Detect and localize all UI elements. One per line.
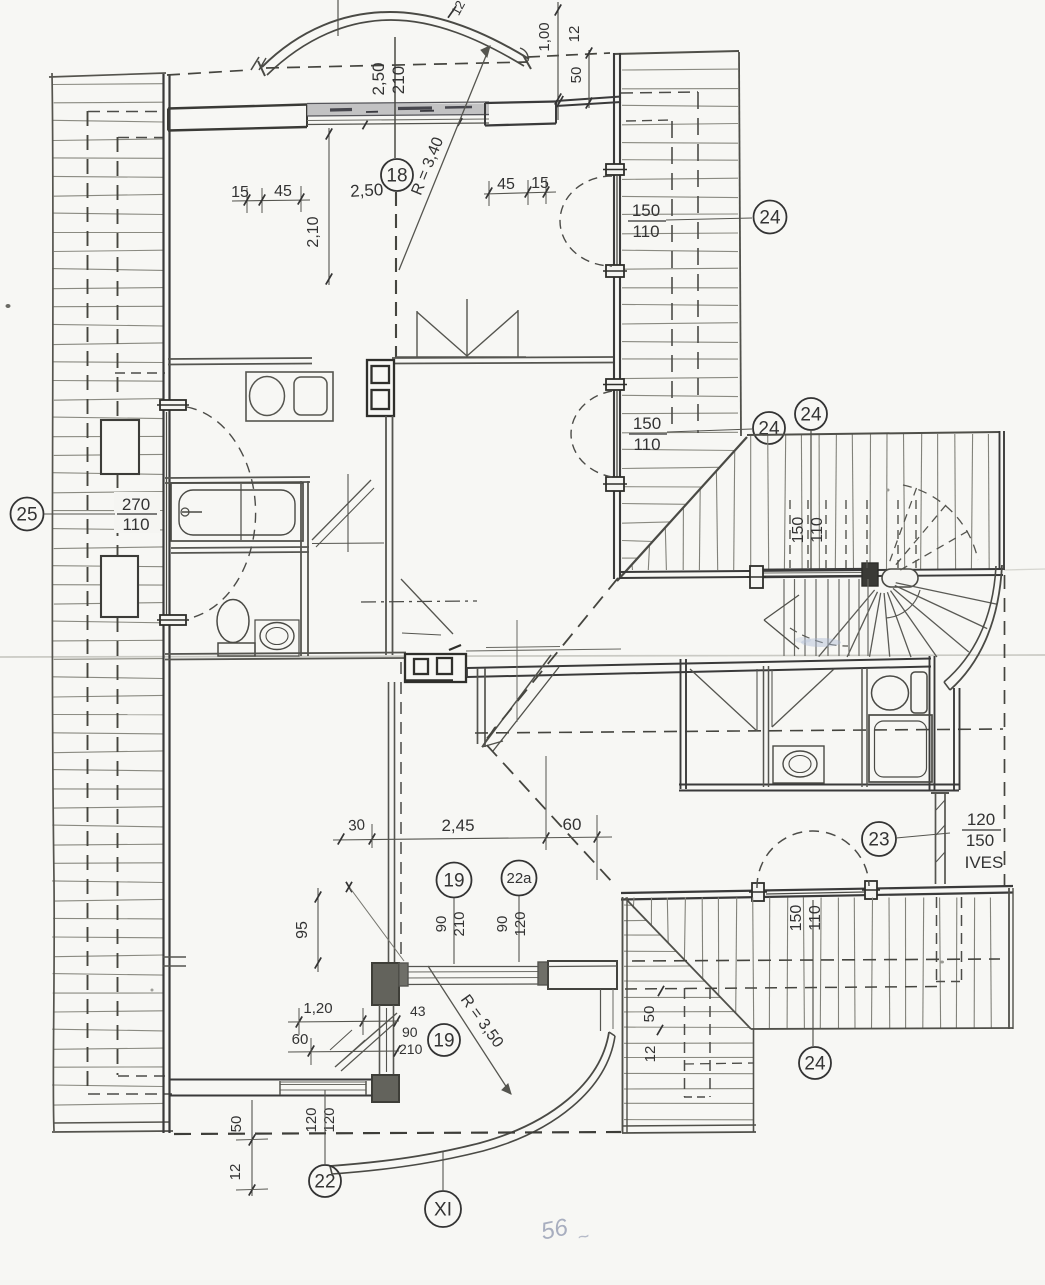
radius line R-3.40 xyxy=(399,46,490,270)
west wall window post lower xyxy=(157,615,189,625)
text 2,50 room width xyxy=(350,180,384,201)
leader 19 xyxy=(453,898,455,964)
svg-text:210: 210 xyxy=(389,66,408,94)
stair direction arrow xyxy=(764,595,799,649)
svg-text:210: 210 xyxy=(399,1041,423,1057)
stair outer curved wall xyxy=(944,565,1002,690)
bath2 door triangle west xyxy=(690,669,757,731)
south window posts xyxy=(749,881,880,901)
S band diagonal edge xyxy=(625,898,751,1029)
svg-text:60: 60 xyxy=(292,1031,309,1048)
svg-text:2,50: 2,50 xyxy=(350,180,384,201)
stair floor line xyxy=(619,569,1003,578)
north wall block west xyxy=(168,105,307,131)
dashed line east of wall xyxy=(400,662,402,958)
svg-text:22: 22 xyxy=(314,1172,335,1193)
front door swing xyxy=(330,1013,397,1071)
dim 150/110 window1 xyxy=(628,201,752,241)
wall below upper chimney xyxy=(386,416,393,655)
SE band bottom edge xyxy=(751,1028,1013,1029)
S band left edge xyxy=(623,897,628,1133)
rot dim 90/210 xyxy=(433,911,468,936)
wash basin xyxy=(773,746,824,783)
porch north window band xyxy=(399,962,548,986)
bath2 door triangle east xyxy=(772,669,834,727)
svg-text:15: 15 xyxy=(531,175,549,192)
svg-text:2,10: 2,10 xyxy=(305,216,322,247)
dash-dot guide xyxy=(361,601,477,602)
svg-text:50: 50 xyxy=(641,1006,658,1023)
dashed leader below circle 18 xyxy=(395,192,397,358)
porch corner block N xyxy=(372,963,399,1005)
dim line 1,00 xyxy=(536,2,561,120)
circle 24 upper stair xyxy=(795,398,827,430)
east band right edge xyxy=(739,52,741,436)
left band dashed mid xyxy=(115,372,165,374)
faint handwriting xyxy=(539,1214,592,1250)
svg-text:110: 110 xyxy=(122,515,149,534)
circle 22a xyxy=(502,861,537,896)
roof window upper xyxy=(101,420,139,474)
dim line 12/50 xyxy=(557,26,592,109)
stair right wall xyxy=(1000,431,1005,570)
east wall inner xyxy=(619,53,621,579)
svg-text:45: 45 xyxy=(274,183,292,200)
west wall window post upper xyxy=(157,400,189,410)
svg-text:18: 18 xyxy=(386,166,407,187)
circle 18 xyxy=(381,159,413,191)
chimney flue block upper xyxy=(367,360,394,416)
bath2 divider east xyxy=(862,668,867,787)
dimension line 2,50/210 xyxy=(369,37,408,158)
north window band xyxy=(307,102,489,129)
curved wall end caps xyxy=(330,1032,615,1174)
svg-text:19: 19 xyxy=(443,871,464,892)
bath north wall xyxy=(165,477,310,483)
south wall east wing xyxy=(621,886,1013,900)
toilet under stair xyxy=(872,672,928,713)
svg-text:24: 24 xyxy=(759,208,781,229)
dashed rooflight S band xyxy=(684,988,754,1097)
long dashed line through bath xyxy=(475,729,1003,733)
east wall window1 mid xyxy=(616,176,618,265)
circle XI xyxy=(425,1191,461,1227)
dim 60 xyxy=(288,1031,400,1065)
hall door triangle A xyxy=(312,474,384,552)
svg-text:12: 12 xyxy=(227,1164,244,1181)
thin diagonal leader xyxy=(350,888,404,961)
svg-text:19: 19 xyxy=(433,1031,454,1052)
circle 25 xyxy=(11,498,44,531)
svg-text:120: 120 xyxy=(303,1107,320,1132)
dashed property boundary xyxy=(174,1132,621,1134)
dashed line y960 xyxy=(632,959,1000,961)
dim 50 S band xyxy=(641,986,664,1063)
bathroom dashed door arc xyxy=(186,407,256,619)
bath south wall xyxy=(171,547,309,553)
svg-text:120: 120 xyxy=(967,810,995,829)
spiral stair inner arc xyxy=(886,590,920,618)
east band top edge xyxy=(613,51,739,54)
basement stair arrow diagonals xyxy=(482,655,559,751)
eave kink marks xyxy=(251,57,266,70)
svg-text:12: 12 xyxy=(642,1046,659,1063)
circle 22 xyxy=(309,1165,341,1197)
bay arc left end cap xyxy=(258,61,265,76)
left band dashed top A xyxy=(88,111,163,113)
svg-text:90: 90 xyxy=(402,1024,418,1040)
south kitchen wall xyxy=(165,653,406,660)
west wall outer line xyxy=(162,74,164,1133)
south door dashed arc xyxy=(757,831,869,888)
stair top line xyxy=(747,432,1000,435)
dim 120/150 IVES xyxy=(962,810,1003,872)
dim 95 vertical xyxy=(294,888,321,972)
svg-text:50: 50 xyxy=(228,1116,245,1133)
svg-text:110: 110 xyxy=(632,222,659,241)
bath2 south wall xyxy=(679,785,959,791)
svg-text:23: 23 xyxy=(868,830,889,851)
ives door jambs xyxy=(931,792,949,884)
west wall stub at porch xyxy=(163,957,186,966)
svg-text:XI: XI xyxy=(434,1200,452,1221)
dashed line y988 xyxy=(625,987,940,990)
left band dashed eave line B xyxy=(117,137,119,1075)
svg-text:60: 60 xyxy=(563,815,582,834)
bay window inner arc xyxy=(267,20,524,75)
bay arc right end cap xyxy=(520,48,531,69)
thin leader center xyxy=(516,620,518,722)
straight treads lower flight xyxy=(784,579,868,656)
circle 23 xyxy=(862,822,896,856)
dashed valley polyline xyxy=(484,578,618,883)
blue pencil smudge xyxy=(795,637,841,647)
roof window lower xyxy=(101,556,138,617)
svg-text:2,45: 2,45 xyxy=(441,816,474,835)
leader circle XI xyxy=(442,1152,444,1191)
west wall window mid line xyxy=(166,412,168,615)
hall door leaf B xyxy=(401,579,453,635)
circle 24 window1 xyxy=(754,201,787,234)
faint crease right of stair xyxy=(1004,569,1045,570)
svg-text:120: 120 xyxy=(512,911,529,936)
radius arrow R-3.50 xyxy=(428,966,511,1094)
hall upper thin lines xyxy=(466,647,621,652)
porch SW window xyxy=(280,1081,366,1083)
circle 24 window2 xyxy=(753,412,785,444)
svg-text:24: 24 xyxy=(800,405,822,426)
east roof hatch lines xyxy=(622,69,738,558)
circle 19 top xyxy=(437,863,472,898)
east wall window2 posts xyxy=(603,379,627,491)
dim 270/110 fraction xyxy=(114,492,160,534)
svg-text:90: 90 xyxy=(494,916,511,933)
svg-text:15: 15 xyxy=(231,184,249,201)
svg-text:25: 25 xyxy=(16,505,37,526)
west wall inner line xyxy=(168,74,170,1133)
svg-text:1,00: 1,00 xyxy=(536,22,553,51)
leader circle 22 xyxy=(324,1090,326,1164)
north wall block east xyxy=(485,102,556,126)
svg-text:1,20: 1,20 xyxy=(303,1000,332,1017)
dim 45/15 right xyxy=(484,175,556,206)
SE band right edge xyxy=(1009,888,1013,1029)
rot dim 120/120 xyxy=(303,1107,338,1132)
left band dashed eave line A xyxy=(87,111,89,1093)
leader 22a xyxy=(518,896,520,962)
svg-text:120: 120 xyxy=(321,1107,338,1132)
svg-text:IVES: IVES xyxy=(965,853,1004,872)
porch pier xyxy=(548,961,617,1031)
landing post left xyxy=(747,566,766,588)
dim 2,10 vertical xyxy=(305,128,332,285)
left roof band left edge xyxy=(52,73,54,1131)
dim 50/12 bottom xyxy=(227,1100,268,1196)
circle 24 south xyxy=(799,1047,831,1079)
left band dashed top B xyxy=(118,137,163,139)
east wall window1 posts xyxy=(603,164,627,277)
left band dashed bottom B xyxy=(88,1093,172,1095)
S band right lower edge xyxy=(753,1028,755,1132)
svg-text:50: 50 xyxy=(568,67,585,84)
left roof band top edge xyxy=(49,73,166,77)
leader circle 23 xyxy=(896,833,950,838)
S band horizontal hatch xyxy=(624,905,753,1120)
paper specks xyxy=(6,304,945,992)
east band dashed overhang B xyxy=(626,120,672,433)
SE band vertical hatch xyxy=(633,898,991,1029)
landing rail thick xyxy=(751,569,877,577)
roof valley diagonal xyxy=(617,437,747,581)
bathtub xyxy=(171,483,303,541)
svg-text:150: 150 xyxy=(966,831,994,850)
leader from circle 24 to landing xyxy=(810,430,812,570)
svg-text:150: 150 xyxy=(788,905,805,932)
horizontal fold crease xyxy=(0,655,1045,657)
shower tray xyxy=(869,715,932,782)
S band bottom edge xyxy=(622,1125,756,1133)
window2 dashed swing arc xyxy=(571,391,612,477)
dim 15/45 left xyxy=(231,183,310,213)
tick 12 at arc right xyxy=(448,0,468,18)
wall below lower chimney xyxy=(389,682,395,963)
leader circle 25 xyxy=(44,513,115,515)
cross tick xyxy=(346,882,352,892)
bath2 east wall xyxy=(930,656,935,790)
dashed boundary right xyxy=(1004,575,1006,886)
dim 1,20 xyxy=(288,1000,400,1035)
wc room east wall xyxy=(301,481,308,656)
porch south wall xyxy=(170,1080,372,1096)
SE dashed rect xyxy=(936,897,962,982)
left band dashed bottom A xyxy=(118,1075,171,1077)
room divider wall mid xyxy=(168,357,613,365)
leader to circle 24 south xyxy=(812,900,814,1046)
dim 150/110 window2 xyxy=(629,414,752,454)
dashed eave line under arc xyxy=(167,53,610,75)
dim 150/110 stair rotated xyxy=(790,515,828,543)
porch corner block S xyxy=(372,1075,399,1102)
svg-text:24: 24 xyxy=(804,1054,826,1075)
spiral stair lower radial treads xyxy=(819,583,997,657)
north wall continues to east wing xyxy=(556,97,621,107)
east wall window2 mid xyxy=(616,391,618,477)
bidet xyxy=(255,620,299,656)
svg-text:95: 95 xyxy=(294,921,311,939)
wc toilet xyxy=(217,600,255,657)
svg-text:22a: 22a xyxy=(506,870,532,887)
svg-text:150: 150 xyxy=(633,414,661,433)
left roof hatch lines xyxy=(52,84,163,1105)
left roof band bottom edge xyxy=(52,1122,173,1132)
east band dashed overhang A xyxy=(621,92,698,433)
bath2 west wall xyxy=(681,659,687,789)
svg-text:150: 150 xyxy=(790,517,807,544)
svg-text:110: 110 xyxy=(633,435,660,454)
chimney flue block lower xyxy=(405,645,466,682)
svg-text:30: 30 xyxy=(348,816,366,834)
svg-text:2,50: 2,50 xyxy=(369,62,388,95)
spiral stair dashed upper radials xyxy=(890,486,970,570)
dashed treads upper flight xyxy=(790,500,916,568)
wall post with arrow xyxy=(478,668,486,747)
stair area vertical hatch xyxy=(632,434,989,570)
wardrobe symbol xyxy=(396,299,526,357)
corridor-bath north wall xyxy=(467,659,931,678)
door dim texts xyxy=(399,1003,426,1057)
bath2 divider west xyxy=(764,666,769,787)
svg-text:43: 43 xyxy=(410,1003,426,1019)
svg-text:45: 45 xyxy=(497,176,515,193)
svg-text:24: 24 xyxy=(758,419,780,440)
svg-text:270: 270 xyxy=(122,495,150,514)
lower flight dashed rail xyxy=(790,628,848,646)
porch dim line 2,45 xyxy=(333,756,612,880)
svg-text:12: 12 xyxy=(566,26,583,43)
svg-text:90: 90 xyxy=(433,916,450,933)
landing post center xyxy=(862,563,918,587)
south wall window mid xyxy=(766,892,864,894)
bath2 outer east wall xyxy=(954,688,960,790)
spiral stair dashed upper arc xyxy=(903,485,978,560)
curved entry wall inner xyxy=(332,1036,615,1174)
dim 150/110 south rotated xyxy=(788,905,824,932)
rot dim 90/120 xyxy=(494,911,529,936)
apex guide line xyxy=(337,0,339,36)
entry door jambs xyxy=(380,1005,394,1075)
window1 dashed swing arc xyxy=(560,176,612,266)
svg-text:150: 150 xyxy=(632,201,660,220)
east wall outer xyxy=(613,53,615,579)
curved entry wall outer xyxy=(330,1032,609,1166)
circle 19 door xyxy=(428,1024,460,1056)
bay window outer arc xyxy=(262,12,529,67)
svg-text:110: 110 xyxy=(809,517,826,543)
kitchen counter with sink xyxy=(246,372,333,421)
svg-text:210: 210 xyxy=(451,911,468,936)
